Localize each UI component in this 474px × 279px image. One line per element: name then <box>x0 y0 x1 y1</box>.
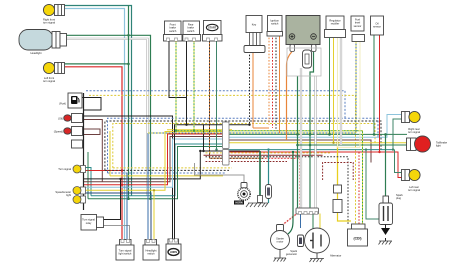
svg-text:Turn signal: Turn signal <box>58 167 71 171</box>
svg-text:sensor: sensor <box>354 24 362 28</box>
svg-text:(CDI): (CDI) <box>353 237 361 241</box>
svg-text:relay: relay <box>86 221 92 225</box>
svg-text:turn signal: turn signal <box>43 21 55 25</box>
svg-text:Turn signal: Turn signal <box>82 218 95 222</box>
svg-text:light: light <box>436 144 441 148</box>
svg-text:motor: motor <box>277 240 284 244</box>
svg-text:turn signal: turn signal <box>408 130 420 134</box>
svg-text:light: light <box>66 193 71 197</box>
svg-text:switch: switch <box>271 22 279 26</box>
svg-text:Key: Key <box>252 23 257 27</box>
svg-text:Alternator: Alternator <box>330 254 341 258</box>
svg-text:(Oil): (Oil) <box>58 117 63 121</box>
svg-text:turn signal: turn signal <box>408 188 420 192</box>
svg-text:turn signal: turn signal <box>43 79 55 83</box>
svg-text:switch: switch <box>169 29 177 33</box>
svg-text:Headlight: Headlight <box>31 51 42 55</box>
svg-text:sensor: sensor <box>373 25 381 29</box>
svg-text:HORN: HORN <box>170 251 177 254</box>
svg-text:generator: generator <box>286 252 297 256</box>
svg-text:light switch: light switch <box>119 252 132 256</box>
svg-text:rectifier: rectifier <box>331 22 340 26</box>
svg-text:START: START <box>208 26 217 30</box>
svg-text:switch: switch <box>147 252 155 256</box>
svg-text:(Speed): (Speed) <box>54 130 63 134</box>
svg-text:switch: switch <box>187 29 195 33</box>
svg-text:HORN: HORN <box>235 202 243 205</box>
svg-text:plug: plug <box>396 196 401 200</box>
svg-text:(Fuel): (Fuel) <box>59 102 66 106</box>
